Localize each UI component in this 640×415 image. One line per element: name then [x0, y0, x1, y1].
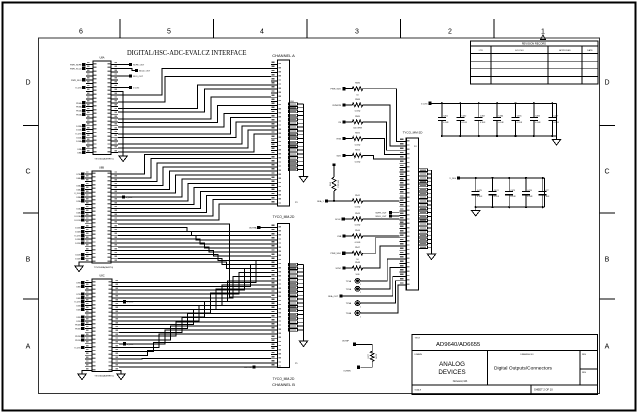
zone ticks right: [600, 125, 616, 127]
svg-text:D11B: D11B: [75, 254, 81, 256]
capacitor C464: [496, 103, 498, 117]
svg-text:SDO_OUT: SDO_OUT: [133, 76, 144, 78]
svg-text:U8B: U8B: [99, 166, 104, 170]
revision record table: [471, 41, 599, 84]
capacitor C474: [492, 178, 494, 192]
ground under U8C right: [117, 374, 125, 380]
wire R577 to OUTBN: [360, 361, 372, 367]
wire: [119, 273, 271, 294]
svg-text:PD2A: PD2A: [76, 109, 82, 112]
wire: [118, 196, 271, 213]
wire R548 to P4: [363, 246, 400, 268]
wire TP2A to P4: [360, 268, 400, 289]
svg-text:REVISION RECORD: REVISION RECORD: [522, 42, 546, 46]
svg-text:DEVICES: DEVICES: [438, 369, 465, 376]
svg-text:TXV2640A(SHRT0): TXV2640A(SHRT0): [94, 374, 113, 377]
capacitor C477: [542, 178, 544, 192]
svg-text:D3A: D3A: [76, 196, 81, 199]
svg-text:SYNC: SYNC: [336, 268, 342, 270]
wire: [119, 264, 271, 286]
svg-text:ANALOG: ANALOG: [439, 361, 465, 368]
wire R543 to P4: [363, 218, 400, 220]
svg-text:C: C: [25, 169, 30, 176]
svg-text:0.1KΩ: 0.1KΩ: [355, 161, 361, 163]
svg-text:SDLD_OUT: SDLD_OUT: [139, 71, 151, 73]
connector P4 TYCO_MM-2D body: [406, 138, 418, 290]
wire U8A pin8 to ground: [118, 91, 123, 156]
IC U8A body: [93, 61, 111, 155]
wire: [118, 235, 271, 240]
ground cap bank 2: [472, 211, 480, 217]
wire: [119, 269, 271, 291]
svg-text:PWR_SDO: PWR_SDO: [71, 80, 82, 82]
wire: [119, 322, 271, 336]
wire R586 to P4: [363, 89, 400, 142]
svg-text:D12B: D12B: [75, 243, 81, 245]
svg-text:TP1A: TP1A: [346, 280, 352, 283]
svg-text:DCOA: DCOA: [74, 215, 81, 218]
svg-text:V_DIG: V_DIG: [74, 348, 81, 350]
long feeder U8B pin14 to CHANNEL B pin 18: [118, 224, 271, 297]
IC U8B left net labels: [81, 172, 84, 175]
svg-text:DRAWING NO: DRAWING NO: [520, 353, 534, 356]
svg-text:ECO NO: ECO NO: [515, 50, 524, 52]
zone ticks left: [23, 125, 39, 127]
svg-text:D: D: [604, 80, 609, 87]
wire: [118, 179, 271, 197]
svg-text:B: B: [605, 257, 610, 264]
IC U8A left net labels: [82, 63, 85, 66]
svg-text:SDFE_OUT: SDFE_OUT: [133, 65, 145, 67]
wire TP1A to P4: [360, 259, 400, 281]
svg-text:0.1UF: 0.1UF: [535, 122, 541, 124]
svg-text:5: 5: [167, 29, 171, 36]
capacitor C461: [441, 103, 443, 117]
svg-text:TITLE: TITLE: [415, 338, 421, 340]
svg-text:V_DIG: V_DIG: [421, 103, 428, 105]
svg-text:Norwood, MA: Norwood, MA: [453, 380, 468, 383]
wire: [118, 254, 271, 260]
capacitor C473: [475, 178, 477, 192]
ground under U8A: [119, 156, 127, 162]
wire R589 to P4: [363, 122, 400, 150]
svg-text:D2B: D2B: [76, 321, 81, 323]
cap bank 1 top rail: [432, 102, 557, 104]
svg-text:D15B: D15B: [75, 228, 81, 230]
wire: [118, 251, 271, 257]
svg-text:PD2B: PD2B: [75, 336, 81, 338]
zone ticks top: [119, 19, 121, 38]
svg-text:0.1UF: 0.1UF: [498, 122, 504, 124]
svg-text:PWR_SCLD: PWR_SCLD: [70, 68, 82, 70]
svg-text:OUTBN: OUTBN: [343, 370, 351, 372]
wire: [118, 228, 271, 232]
svg-text:R577: R577: [368, 354, 370, 358]
wire: [119, 366, 271, 368]
svg-text:DNI 49.9: DNI 49.9: [337, 180, 339, 187]
ground under U8C left: [78, 374, 86, 380]
wire: [118, 126, 271, 144]
svg-text:SDA_1: SDA_1: [317, 200, 324, 203]
wire SDA_OUT to P4: [343, 276, 400, 296]
svg-text:PD3B: PD3B: [75, 328, 81, 330]
wire: [118, 171, 271, 189]
svg-text:V_DIG: V_DIG: [74, 193, 81, 195]
wire: [119, 342, 271, 351]
wire: [118, 262, 271, 268]
svg-text:A: A: [605, 344, 610, 351]
capacitor C465: [515, 103, 517, 117]
svg-text:SDA_OUT: SDA_OUT: [328, 295, 339, 298]
IC U8C pins: [85, 282, 92, 284]
wire U8C to left ground: [82, 371, 85, 374]
junction SDA node: [333, 200, 335, 202]
svg-text:B: B: [26, 257, 31, 264]
svg-text:TXV2640A(SHRT0): TXV2640A(SHRT0): [94, 157, 113, 160]
svg-text:TYCO_MM-2D: TYCO_MM-2D: [273, 377, 295, 381]
svg-text:R540: R540: [330, 182, 332, 186]
wire: [119, 334, 271, 348]
svg-text:D6B: D6B: [76, 298, 81, 300]
svg-text:V_DIG: V_DIG: [449, 178, 456, 180]
wire: [118, 175, 271, 193]
wire: [118, 122, 271, 138]
wire: [119, 260, 271, 282]
IC U8C right net labels: [119, 301, 123, 303]
svg-text:D3B: D3B: [76, 317, 81, 319]
svg-text:D: D: [25, 80, 30, 87]
cap bank 2 bottom rail: [476, 206, 545, 208]
resistor R540 (vertical, DNI): [333, 164, 336, 167]
svg-text:SCLK: SCLK: [335, 219, 341, 221]
svg-text:D13B: D13B: [75, 239, 81, 241]
cap bank 1 bottom rail: [442, 135, 557, 137]
svg-text:Digital Outputs/Connectors: Digital Outputs/Connectors: [494, 365, 552, 370]
wire: [118, 243, 271, 248]
connector P3 CHANNEL A ground stack: [289, 103, 298, 106]
IC U8B body: [92, 171, 111, 263]
ground cap bank 1: [552, 140, 560, 146]
svg-text:V_DIG: V_DIG: [75, 87, 82, 89]
svg-text:1: 1: [360, 306, 361, 308]
svg-text:AD9640/AD6655: AD9640/AD6655: [436, 342, 480, 348]
wire R547 to P4: [363, 237, 400, 253]
wire OUTBP to R577: [356, 344, 372, 351]
wire: [118, 247, 271, 252]
svg-text:TP4A: TP4A: [346, 312, 352, 315]
svg-text:2: 2: [448, 29, 452, 36]
svg-text:PD1B: PD1B: [75, 340, 81, 342]
IC U8A pins: [86, 64, 93, 66]
wire: [119, 281, 271, 302]
wire: [118, 69, 271, 95]
svg-text:D13A: D13A: [76, 125, 82, 128]
connector P5 CHANNEL B body: [278, 224, 290, 368]
svg-text:LTR: LTR: [479, 50, 483, 52]
svg-text:C: C: [604, 169, 609, 176]
IC U8A right-side net labels: [118, 64, 129, 66]
svg-text:0.1UF: 0.1UF: [443, 122, 449, 124]
wire: [119, 314, 271, 329]
svg-text:50Ω: 50Ω: [356, 274, 360, 276]
svg-text:D8A: D8A: [77, 152, 82, 155]
wire: [119, 293, 271, 313]
wire: [119, 310, 271, 325]
wire: [119, 289, 271, 309]
wire: [118, 187, 271, 204]
svg-text:D1A: D1A: [76, 207, 81, 210]
wire: [119, 305, 271, 320]
wire: [118, 97, 271, 119]
svg-text:U8A: U8A: [99, 56, 104, 60]
connector P5 CHANNEL B left pins: [271, 227, 278, 229]
svg-text:D9B: D9B: [76, 283, 81, 285]
wire: [119, 358, 271, 360]
svg-text:D4A: D4A: [76, 188, 81, 191]
svg-text:PD4A: PD4A: [76, 102, 82, 105]
svg-text:OUTBP: OUTBP: [342, 341, 350, 343]
svg-text:PD1A: PD1A: [76, 113, 82, 116]
svg-text:PWR_SDFE: PWR_SDFE: [70, 65, 82, 67]
wire R594 to P4: [363, 156, 400, 159]
svg-text:U8C: U8C: [99, 274, 104, 278]
wire: [118, 89, 271, 112]
ground for P5 CHANNEL B stack: [299, 341, 307, 347]
revision delta marker: [541, 35, 546, 40]
wire: [119, 285, 271, 306]
svg-text:0.1UF: 0.1UF: [494, 196, 500, 198]
wire: [118, 167, 271, 186]
connector P3 CHANNEL A body: [278, 60, 290, 206]
wire: [118, 105, 271, 122]
wire: [119, 277, 271, 298]
svg-text:D4B: D4B: [76, 309, 81, 311]
wire: [118, 118, 271, 134]
wire: [118, 85, 271, 109]
svg-text:PD3A: PD3A: [76, 106, 82, 109]
svg-text:0.1UF: 0.1UF: [480, 122, 486, 124]
capacitor C476: [525, 178, 527, 192]
capacitor C466: [533, 103, 535, 117]
IC U8B right net labels: [118, 196, 122, 198]
wire U8B last pin to ground: [79, 262, 85, 266]
wire: [118, 200, 271, 216]
wire: [119, 301, 271, 317]
svg-text:CHANNEL B: CHANNEL B: [272, 382, 295, 387]
wire: [118, 231, 271, 235]
svg-text:APPROVED: APPROVED: [559, 49, 571, 52]
wire R541 to P4: [363, 200, 400, 202]
connector P4 pins: [400, 141, 407, 143]
svg-text:TYCO_MM-2D: TYCO_MM-2D: [403, 131, 424, 135]
svg-text:0.1UF: 0.1UF: [462, 122, 468, 124]
svg-text:1: 1: [360, 292, 361, 294]
capacitor C463: [478, 103, 480, 117]
IC U8C left net labels: [81, 281, 84, 284]
svg-text:D11A: D11A: [76, 136, 82, 139]
wire: [118, 77, 271, 102]
wire: [118, 192, 271, 209]
svg-text:PD4B: PD4B: [75, 325, 81, 327]
svg-text:SDLD_OUT: SDLD_OUT: [375, 216, 387, 218]
svg-text:V_DIG: V_DIG: [74, 235, 81, 237]
svg-text:D7A: D7A: [76, 173, 81, 176]
wire: [118, 130, 271, 148]
svg-text:V_DIG: V_DIG: [75, 133, 82, 135]
svg-text:DCOB: DCOB: [74, 220, 81, 222]
svg-text:D6A: D6A: [76, 177, 81, 180]
svg-text:D10B: D10B: [75, 258, 81, 260]
wire: [118, 258, 271, 264]
svg-text:D10A: D10A: [76, 140, 82, 143]
svg-text:DIGITAL/HSC-ADC-EVALCZ INTERFA: DIGITAL/HSC-ADC-EVALCZ INTERFACE: [127, 49, 247, 57]
svg-text:D5B: D5B: [76, 305, 81, 307]
svg-text:0.1KΩ: 0.1KΩ: [355, 225, 361, 227]
wire: [118, 159, 271, 178]
wire: [118, 134, 271, 152]
wire: [118, 239, 271, 244]
title block: [412, 334, 598, 394]
svg-text:CHANNEL A: CHANNEL A: [272, 53, 295, 58]
connector P4 ground stack: [419, 169, 428, 172]
IC U8B pins: [85, 173, 92, 175]
wire: [119, 362, 271, 364]
svg-text:SDO: SDO: [336, 156, 341, 158]
svg-text:SHEET 2 OF 10: SHEET 2 OF 10: [534, 388, 553, 392]
wire R592 to P4: [363, 139, 400, 155]
svg-text:REV: REV: [582, 372, 587, 374]
svg-text:RXNSTB: RXNSTB: [333, 105, 342, 107]
svg-text:D0A: D0A: [76, 211, 81, 214]
svg-text:D12A: D12A: [76, 129, 82, 132]
resistor R577 (vertical): [370, 351, 374, 361]
capacitor C462: [459, 103, 461, 117]
wire: [118, 163, 271, 182]
wire U8C to right ground: [119, 371, 121, 374]
wire TP4A to P4: [360, 285, 400, 313]
capacitor C475: [508, 178, 510, 192]
wire R544 to P4: [363, 235, 400, 237]
svg-text:D9A: D9A: [77, 148, 82, 151]
svg-text:PWR_SDO: PWR_SDO: [330, 253, 341, 255]
svg-text:CSB: CSB: [337, 236, 342, 238]
svg-text:D2A: D2A: [76, 200, 81, 203]
svg-text:TP2A: TP2A: [346, 288, 352, 291]
svg-text:PWR_SDO: PWR_SDO: [330, 89, 341, 91]
svg-text:0.1KΩ: 0.1KΩ: [355, 207, 361, 209]
svg-text:A: A: [26, 344, 31, 351]
ground under U8B: [75, 266, 83, 272]
wire: [119, 318, 271, 333]
svg-text:RXN: RXN: [337, 139, 342, 141]
svg-text:REV: REV: [582, 354, 587, 356]
svg-text:0.1UF: 0.1UF: [510, 196, 516, 198]
connector P5 CHANNEL B ground stack: [289, 263, 298, 266]
svg-text:3: 3: [355, 29, 359, 36]
svg-text:6: 6: [79, 29, 83, 36]
inner drawing frame: [39, 38, 600, 394]
svg-text:0.1KΩ: 0.1KΩ: [355, 111, 361, 113]
svg-text:500 OHM: 500 OHM: [353, 128, 362, 130]
svg-text:V_DIG: V_DIG: [74, 302, 81, 304]
wire: [119, 330, 271, 344]
svg-text:OUTRA: OUTRA: [249, 227, 257, 230]
IC U8C body: [92, 279, 112, 372]
svg-text:D14B: D14B: [75, 231, 81, 233]
svg-text:D5A: D5A: [76, 184, 81, 187]
svg-text:SCALE: SCALE: [415, 389, 422, 392]
svg-text:D7B: D7B: [76, 294, 81, 296]
ground for P3 CHANNEL A stack: [299, 177, 307, 183]
svg-text:49.9M: 49.9M: [375, 354, 377, 359]
svg-text:D8B: D8B: [76, 286, 81, 288]
svg-text:DRAWN: DRAWN: [415, 353, 423, 356]
wire: [119, 326, 271, 340]
connector P3 CHANNEL A left pins: [271, 63, 278, 65]
svg-text:0.1UF: 0.1UF: [477, 196, 483, 198]
ground for P4 stack: [427, 254, 435, 260]
svg-text:SDFE_OUT: SDFE_OUT: [375, 213, 387, 215]
wire: [119, 351, 271, 356]
svg-text:V_DIG: V_DIG: [133, 87, 140, 89]
svg-text:TYCO_MM-2D: TYCO_MM-2D: [273, 215, 295, 219]
wire R588 to P4: [363, 105, 400, 146]
svg-text:GND: GND: [290, 101, 295, 103]
svg-text:DATE: DATE: [587, 49, 593, 52]
svg-text:0.1KΩ: 0.1KΩ: [355, 242, 361, 244]
cap bank 2 top rail: [460, 177, 544, 179]
svg-text:1: 1: [360, 316, 361, 318]
svg-text:TP3A: TP3A: [346, 302, 352, 305]
wire: [118, 204, 271, 220]
wire TP3A to P4: [360, 281, 400, 303]
svg-text:TXV2640A(SHRT0): TXV2640A(SHRT0): [94, 266, 113, 269]
svg-text:4: 4: [260, 29, 264, 36]
svg-text:1: 1: [360, 284, 361, 286]
svg-text:0.1UF: 0.1UF: [527, 196, 533, 198]
wire: [118, 114, 271, 128]
capacitor C467: [551, 103, 553, 117]
wire: [118, 183, 271, 201]
wire: [118, 155, 271, 174]
svg-text:0.1KΩ: 0.1KΩ: [355, 144, 361, 146]
svg-text:0.1UF: 0.1UF: [517, 122, 523, 124]
